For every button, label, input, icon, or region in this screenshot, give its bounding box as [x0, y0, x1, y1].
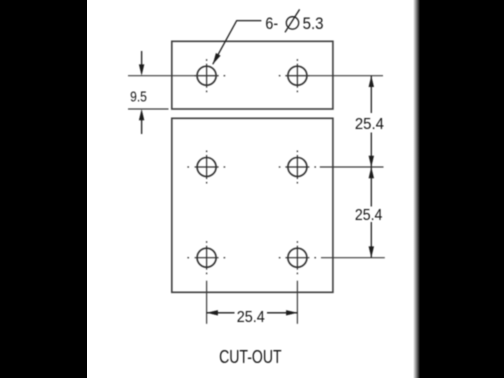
bottom dim arrow right	[286, 310, 297, 315]
svg-text:9.5: 9.5	[130, 89, 147, 106]
top plate outline	[172, 41, 333, 109]
right dimension line segment 3	[370, 222, 372, 258]
svg-text:5.3: 5.3	[303, 15, 324, 33]
extension line: H6 centerline extended right	[321, 257, 385, 259]
extension line: top hole centerline extended left	[128, 75, 219, 77]
bottom plate outline	[172, 118, 333, 292]
leader arrowhead	[213, 53, 221, 64]
svg-text:6-: 6-	[265, 15, 278, 33]
hole H1 (top-left, top plate)	[195, 59, 226, 92]
leader line to hole H1	[213, 21, 262, 65]
hole H6 (lower-right, bottom plate)	[279, 241, 316, 274]
svg-text:25.4: 25.4	[355, 207, 383, 224]
dim 9.5 upper arrow (down)	[141, 51, 143, 70]
hole H5 (lower-left, bottom plate)	[187, 241, 225, 274]
diameter symbol	[285, 9, 300, 32]
extension line: H6 centerline extended down	[296, 281, 298, 324]
svg-text:25.4: 25.4	[237, 309, 265, 326]
hole H2 (top-right, top plate)	[279, 59, 310, 92]
extension line: top-right hole centerline extended right	[285, 75, 383, 77]
extension line: H5 centerline extended down	[206, 281, 208, 324]
bottom dimension line right segment	[267, 312, 297, 314]
hole H3 (upper-left, bottom plate)	[187, 151, 225, 184]
right dimension line segment 1	[370, 76, 372, 113]
bottom dim arrow left	[207, 310, 218, 315]
white paper panel	[87, 0, 413, 378]
right dim arrow down at bottom	[369, 246, 374, 257]
right dim arrows at middle	[369, 156, 374, 167]
bottom dimension line left segment	[207, 312, 235, 314]
svg-text:25.4: 25.4	[355, 116, 384, 133]
right dimension line segment 2	[370, 133, 372, 207]
hole H4 (upper-right, bottom plate)	[279, 151, 316, 184]
extension line: H4 centerline extended right	[320, 166, 384, 168]
right dim arrow up at top	[369, 76, 374, 87]
extension line: top plate bottom edge extended left	[128, 108, 169, 110]
svg-text:CUT-OUT: CUT-OUT	[219, 347, 282, 367]
dim 9.5 lower arrow (up)	[141, 115, 143, 135]
